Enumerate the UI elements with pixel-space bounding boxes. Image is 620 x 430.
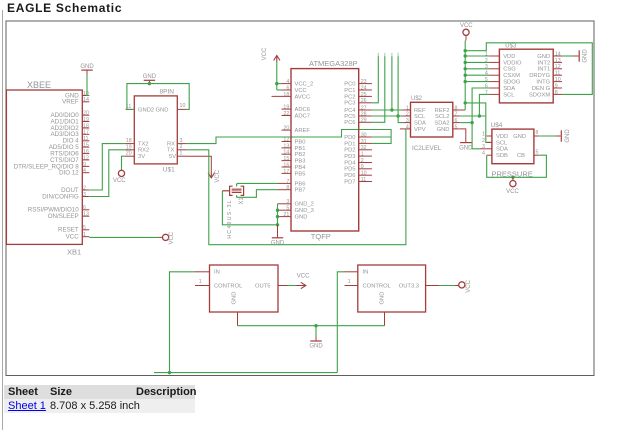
svg-text:DRDYG: DRDYG (529, 73, 550, 79)
svg-text:GND_3: GND_3 (295, 208, 314, 214)
svg-text:17: 17 (283, 169, 289, 175)
ground right of U$3 (578, 50, 580, 61)
svg-text:4: 4 (286, 79, 289, 85)
svg-text:DIN/CONFIG: DIN/CONFIG (42, 193, 79, 200)
junction PC5 net (396, 114, 399, 117)
IC1 pin IN (195, 271, 210, 273)
svg-text:U$4: U$4 (491, 122, 503, 129)
svg-text:VDD: VDD (503, 54, 515, 60)
junction CB loop (511, 176, 514, 179)
svg-text:RX: RX (167, 142, 175, 148)
svg-text:2: 2 (482, 138, 485, 144)
IC2 pin OUT3.3 (426, 285, 439, 287)
svg-text:VPV: VPV (414, 127, 426, 133)
svg-text:29: 29 (361, 118, 367, 124)
XB1 pin 3 DIN/CONFIG (82, 196, 89, 198)
svg-text:8: 8 (286, 185, 289, 191)
svg-text:SDOG: SDOG (503, 80, 521, 86)
svg-text:PC6: PC6 (344, 120, 355, 126)
svg-text:PB7: PB7 (295, 188, 306, 194)
wire regulators ground rail (238, 325, 317, 327)
junction VCC chain (464, 54, 467, 57)
svg-text:CSXM: CSXM (503, 73, 520, 79)
U$3 pin 11 DRDYG (553, 74, 562, 76)
ATMEGA328P pin 25 PC2 (359, 95, 372, 97)
wire VCC chain to U$4 SCL feeder (465, 103, 492, 142)
ATMEGA328P pin 24 PC1 (359, 89, 372, 91)
IC2 pin IN (345, 271, 358, 273)
svg-text:2: 2 (361, 158, 364, 164)
ground below U$2 (460, 142, 471, 144)
wire ground to U$1 pin 10 (149, 84, 189, 110)
wire GND chain stub down (277, 225, 279, 238)
junction PC4 net (390, 108, 393, 111)
VCC supply below U$1 3V (118, 170, 124, 176)
svg-text:9: 9 (361, 164, 364, 170)
wire U$1 5V to VCC arrow (187, 156, 212, 171)
svg-text:VCC: VCC (262, 47, 268, 60)
wire IC2 IN from bottom rail (337, 272, 344, 373)
regulator IC2 body (358, 265, 426, 312)
svg-text:PD2: PD2 (344, 148, 355, 154)
svg-text:VCC: VCC (466, 279, 472, 292)
U$3 pin 8 SDOXM (553, 93, 562, 95)
U$1 pin 1 5V (177, 155, 186, 157)
U$2 pin 5 GND (453, 128, 460, 130)
svg-text:TQFP: TQFP (311, 232, 331, 241)
svg-text:8: 8 (536, 130, 539, 136)
svg-text:PD3: PD3 (344, 154, 355, 160)
ATMEGA328P pin 27 PC4 (359, 109, 372, 111)
junction at U$1 ground (148, 82, 151, 85)
svg-text:PB5: PB5 (295, 171, 306, 177)
svg-text:HC49US-3L: HC49US-3L (227, 199, 233, 239)
svg-text:21: 21 (283, 212, 289, 218)
svg-text:3: 3 (406, 118, 409, 124)
svg-text:PD0: PD0 (344, 135, 355, 141)
svg-text:GND_2: GND_2 (295, 202, 314, 208)
ATMEGA328P pin 10 PD6 (359, 174, 372, 176)
svg-text:PD7: PD7 (344, 179, 355, 185)
svg-text:9: 9 (555, 83, 558, 89)
U$2 pin 2 SCL (402, 115, 411, 117)
svg-text:PD4: PD4 (344, 160, 356, 166)
wire U$1 3V to VCC supply (122, 156, 126, 170)
wire U$4 GND pin to ground (539, 135, 555, 137)
XB1 pin 2 DOUT (82, 189, 89, 191)
wire XB1 VCC pin to VCC supply (89, 236, 158, 238)
svg-text:5: 5 (536, 149, 539, 155)
wire VCC supply stub (465, 35, 467, 40)
svg-text:13: 13 (555, 58, 561, 64)
svg-text:5: 5 (485, 77, 488, 83)
svg-text:PD6: PD6 (344, 173, 355, 179)
ground below ATMEGA (272, 237, 283, 239)
ATMEGA328P pin 12 PB0 (282, 141, 292, 143)
svg-text:ON/SLEEP: ON/SLEEP (48, 213, 79, 220)
ATMEGA328P pin 1 PD3 (359, 155, 372, 157)
svg-text:ADC6: ADC6 (295, 107, 310, 113)
svg-text:PB6: PB6 (295, 181, 306, 187)
U$3 pin 1 VDD (490, 55, 500, 57)
wire PC4 net up (391, 56, 393, 110)
svg-text:DEN G: DEN G (532, 86, 551, 92)
svg-text:6: 6 (83, 205, 86, 211)
svg-text:18: 18 (283, 92, 289, 98)
svg-text:GND2: GND2 (138, 107, 154, 113)
svg-text:VCC: VCC (215, 169, 221, 182)
svg-text:8PIN: 8PIN (160, 89, 175, 96)
svg-text:14: 14 (555, 51, 561, 57)
junction bottom rail at IC1 IN (168, 371, 171, 374)
svg-text:GND: GND (156, 107, 169, 113)
XB1 pin 10 GND (82, 95, 89, 97)
svg-text:XBEE: XBEE (27, 80, 51, 90)
ATMEGA328P pin 4 VCC_2 (282, 83, 292, 85)
wire ATMEGA PD0 stub join (372, 136, 391, 138)
U$4 pin 2 SCL (487, 141, 492, 143)
svg-text:17: 17 (83, 130, 89, 136)
wire U$1 TX to U$2 VPV (187, 129, 406, 245)
svg-text:PC5: PC5 (344, 114, 355, 120)
svg-text:1: 1 (180, 150, 183, 156)
svg-text:CB: CB (517, 153, 525, 159)
XB1 pin 20 AD0/DIO0 (82, 114, 89, 116)
U$1 pin 11 GND2 (126, 108, 135, 110)
svg-text:SDA: SDA (414, 121, 426, 127)
junction VCC chain (464, 74, 467, 77)
svg-text:PC1: PC1 (344, 88, 355, 94)
svg-text:10: 10 (361, 171, 367, 177)
U$1 pin 18 TX2 (126, 143, 135, 145)
svg-text:VCC: VCC (66, 234, 80, 241)
U$2 pin 1 REF (402, 109, 411, 111)
U$3 pin 9 DEN G (553, 87, 562, 89)
ATMEGA328P pin 26 PC3 (359, 102, 372, 104)
ATMEGA328P pin 30 PD0 (359, 136, 372, 138)
junction GND chain corner (276, 223, 279, 226)
svg-text:SCL: SCL (503, 92, 515, 98)
svg-text:13: 13 (83, 212, 89, 218)
U$3 pin 6 SDA (490, 87, 500, 89)
svg-text:15: 15 (283, 156, 289, 162)
XB1 pin 6 RSSI/PWM/DIO10 (82, 209, 89, 211)
schematic canvas frame (6, 21, 594, 376)
VCC supply arrow 5V rail (295, 282, 306, 288)
XB1 pin 5 RESET (82, 229, 89, 231)
wire PC5 net up (397, 56, 399, 116)
svg-text:CONTROL: CONTROL (363, 283, 392, 289)
junction VCC chain (464, 61, 467, 64)
svg-text:VDD: VDD (496, 134, 508, 140)
ATMEGA328P pin 29 PC6 (359, 121, 372, 123)
svg-text:VCC: VCC (460, 23, 473, 29)
wire PB6 to crystal top (237, 182, 278, 184)
svg-text:20: 20 (126, 151, 132, 157)
svg-text:X1: X1 (239, 197, 245, 205)
IC1 pin 1 CONTROL (195, 285, 210, 287)
U$3 pin 13 INT2 (553, 61, 562, 63)
XB1 pin 18 AD2/DIO2 (82, 127, 89, 129)
svg-text:OUT3.3: OUT3.3 (399, 283, 419, 289)
IC1 pin OUT5 (278, 285, 288, 287)
wire XB1 GND pin to ground (86, 70, 88, 74)
junction GND_3 (276, 209, 279, 212)
ATMEGA328P pin 28 PC5 (359, 115, 372, 117)
ATMEGA328P pin 6 VCC (282, 89, 292, 91)
wire ground to U$1 pin 11 (127, 84, 149, 110)
svg-text:VCC: VCC (169, 231, 175, 244)
junction VCC chain (464, 80, 467, 83)
U$2 pin 6 SDA2 (453, 122, 460, 124)
svg-text:28: 28 (361, 111, 367, 117)
svg-text:12: 12 (283, 137, 289, 143)
U$4 pin 4 SDB (487, 154, 492, 156)
svg-text:PD1: PD1 (344, 141, 355, 147)
XB1 pin 11 DIO 4 (82, 140, 89, 142)
svg-text:SCL2: SCL2 (435, 114, 450, 120)
junction at ATMEGA VCC_2 (275, 82, 278, 85)
XB1 pin 19 AD1/DIO1 (82, 121, 89, 123)
svg-text:22: 22 (283, 111, 289, 117)
U$2 pin 4 VPV (400, 128, 411, 130)
U$3 pin 12 INT1 (553, 68, 562, 70)
svg-text:INTG: INTG (536, 80, 550, 86)
VCC supply arrow above ATMEGA VCC pins (274, 56, 280, 63)
svg-text:PB3: PB3 (295, 159, 306, 165)
svg-text:19: 19 (283, 105, 289, 111)
VCC supply 3.3V rail (459, 282, 465, 288)
XB1 pin 4 DIO 12 (82, 172, 89, 174)
wire U$3 SDA down (472, 88, 489, 149)
svg-text:1: 1 (485, 51, 488, 57)
U$1 pin 20 3V (126, 155, 135, 157)
svg-text:AVCC: AVCC (295, 94, 311, 100)
wire VCC jog to right edge and U$3 SDOXM (465, 43, 592, 95)
svg-text:GND: GND (583, 49, 589, 63)
svg-text:SDB: SDB (496, 153, 508, 159)
svg-text:18: 18 (83, 123, 89, 129)
XB1 pin 16 RTS/DIO6 (82, 153, 89, 155)
wire VCC_2 stub join (277, 83, 282, 85)
svg-text:1: 1 (83, 232, 86, 238)
ATMEGA328P pin 32 PD2 (359, 149, 372, 151)
svg-text:AREF: AREF (295, 128, 311, 134)
wire VCC stub join (277, 89, 282, 91)
U$3 pin 5 SDOG (490, 81, 500, 83)
VCC supply top right (463, 29, 469, 35)
svg-text:PB2: PB2 (295, 152, 306, 158)
svg-text:2: 2 (83, 185, 86, 191)
svg-text:24: 24 (361, 85, 367, 91)
ATMEGA328P pin 5 GND_3 (278, 209, 292, 211)
wire U$1 ground stub (148, 80, 150, 83)
svg-text:OUT5: OUT5 (255, 283, 270, 289)
svg-text:20: 20 (83, 111, 89, 117)
IC2 pin 1 CONTROL (345, 285, 358, 287)
U$1 pin 3 RX (177, 143, 186, 145)
svg-text:VCC: VCC (506, 189, 519, 195)
svg-text:TX2: TX2 (138, 142, 149, 148)
ATMEGA328P pin 21 GND (278, 216, 292, 218)
svg-text:15: 15 (83, 143, 89, 149)
wire U$2 SCL2 join (460, 115, 486, 117)
wire U$3 SCL down (479, 94, 489, 116)
ATMEGA328P pin 13 PB1 (282, 147, 292, 149)
svg-text:7: 7 (455, 111, 458, 117)
wire net fade tips (377, 53, 379, 57)
svg-text:4: 4 (485, 71, 488, 77)
svg-text:12: 12 (83, 155, 89, 161)
svg-text:SDA2: SDA2 (434, 121, 449, 127)
svg-text:U$2: U$2 (411, 96, 423, 102)
U$2 pin 3 SDA (404, 122, 411, 124)
svg-text:GND: GND (437, 127, 450, 133)
svg-text:2: 2 (180, 144, 183, 150)
U$2 pin 8 REF2 (453, 109, 465, 111)
ATMEGA328P pin 17 PB5 (282, 172, 292, 174)
svg-text:TX: TX (167, 148, 175, 154)
XB1 pin 13 ON/SLEEP (82, 215, 89, 217)
svg-text:GND: GND (459, 145, 473, 151)
svg-text:4: 4 (482, 151, 485, 157)
svg-text:32: 32 (361, 145, 367, 151)
wire IC1 OUT5 to VCC arrow (288, 285, 296, 287)
ground for XB1 pin 10 (81, 69, 92, 71)
svg-text:16: 16 (83, 149, 89, 155)
svg-text:5: 5 (455, 124, 458, 130)
IMU U$3 body (499, 49, 553, 103)
svg-text:6: 6 (286, 85, 289, 91)
IC2 pin GND down (384, 312, 386, 326)
svg-text:18: 18 (126, 138, 132, 144)
U$3 pin 3 CSG (490, 68, 500, 70)
svg-text:VDDIO: VDDIO (503, 60, 522, 66)
svg-text:IN: IN (363, 270, 369, 276)
junction SCL net (478, 114, 481, 117)
svg-text:20: 20 (283, 126, 289, 132)
svg-text:PC2: PC2 (344, 94, 355, 100)
svg-text:10: 10 (180, 103, 186, 109)
U$3 pin 7 SCL (490, 93, 500, 95)
svg-text:PB0: PB0 (295, 139, 306, 145)
svg-text:3: 3 (485, 64, 488, 70)
svg-text:3: 3 (180, 138, 183, 144)
svg-text:VCC_2: VCC_2 (295, 82, 314, 88)
svg-text:16: 16 (283, 162, 289, 168)
svg-text:VCC: VCC (295, 88, 307, 94)
svg-text:2: 2 (406, 111, 409, 117)
wire XB1 DOUT to U$1 TX2 (89, 144, 125, 190)
svg-text:30: 30 (361, 132, 367, 138)
svg-text:3: 3 (286, 199, 289, 205)
junction VCC chain (464, 49, 467, 52)
svg-text:DIO 12: DIO 12 (59, 170, 79, 177)
svg-text:GND: GND (80, 64, 94, 70)
microcontroller ATMEGA328P body (291, 69, 359, 231)
svg-text:6: 6 (455, 118, 458, 124)
svg-text:SDA: SDA (503, 86, 515, 92)
junction GND (276, 215, 279, 218)
svg-text:GND: GND (565, 129, 571, 143)
svg-text:ATMEGA328P: ATMEGA328P (309, 59, 358, 68)
U$4 pin 3 SDA (487, 148, 492, 150)
wire U$1 RX to ATMEGA PD1 net (187, 130, 392, 144)
U$3 pin 4 CSXM (490, 74, 500, 76)
wire VCC chain to U$3 pins (465, 55, 489, 57)
svg-text:4: 4 (83, 168, 86, 174)
U$3 pin 10 INTG (553, 81, 562, 83)
junction VCC chain (464, 101, 467, 104)
wire U$3 SDA ext to U$4 SDA (480, 148, 487, 150)
svg-text:10: 10 (555, 77, 561, 83)
svg-text:1: 1 (348, 279, 351, 285)
ATMEGA328P pin 2 PD4 (359, 162, 372, 164)
svg-text:IN: IN (214, 270, 220, 276)
XB1 pin 17 AD3/DIO3 (82, 133, 89, 135)
svg-text:GND: GND (309, 344, 323, 350)
XB1 pin 12 CTS/DIO7 (82, 159, 89, 161)
svg-text:11: 11 (361, 177, 367, 183)
XBEE module XB1 body (6, 90, 82, 244)
svg-text:GND: GND (232, 292, 238, 305)
svg-text:VCC: VCC (297, 274, 310, 280)
svg-text:GND: GND (143, 74, 157, 80)
wire PC4 net to U$2 REF (372, 109, 402, 111)
svg-text:GND: GND (380, 292, 386, 305)
ATMEGA328P pin 8 PB7 (278, 189, 292, 191)
wire ground rail down (315, 326, 317, 337)
wire IC2 OUT3.3 to VCC supply (439, 285, 459, 287)
ATMEGA328P pin 31 PD1 (359, 142, 372, 144)
wire PB7 to crystal bottom (237, 190, 278, 198)
ATMEGA328P pin 11 PD7 (359, 181, 372, 183)
svg-text:14: 14 (83, 97, 89, 103)
U$3 pin 2 VDDIO (490, 61, 500, 63)
ATMEGA328P pin 9 PD5 (359, 168, 372, 170)
wire IC1 IN from bottom rail (170, 272, 196, 373)
svg-text:U$3: U$3 (505, 43, 517, 49)
wire U$2 SDA2 join (460, 122, 472, 124)
svg-text:5V: 5V (169, 154, 176, 160)
radio module U$1 body (134, 96, 177, 164)
XB1 pin 15 AD5/DIO 5 (82, 146, 89, 148)
U$4 pin 8 GND (534, 135, 539, 137)
U$2 pin 7 SCL2 (453, 115, 460, 117)
svg-text:PC3: PC3 (344, 101, 355, 107)
pressure sensor U$4 body (492, 129, 534, 164)
wire U$4 CB loop to SDB (487, 155, 547, 177)
svg-text:CSG: CSG (503, 67, 516, 73)
svg-text:5: 5 (83, 225, 86, 231)
svg-text:PB1: PB1 (295, 146, 306, 152)
ATMEGA328P pin 3 GND_2 (278, 203, 292, 205)
svg-text:14: 14 (283, 150, 289, 156)
VCC supply below U$4 (510, 181, 516, 187)
svg-text:SCL: SCL (496, 140, 508, 146)
svg-text:PC0: PC0 (344, 82, 355, 88)
svg-text:7: 7 (286, 179, 289, 185)
svg-text:12: 12 (555, 64, 561, 70)
svg-text:11: 11 (83, 136, 89, 142)
svg-text:9: 9 (83, 162, 86, 168)
svg-text:23: 23 (361, 79, 367, 85)
ATMEGA328P pin 14 PB2 (282, 153, 292, 155)
wire GND chain to crystal (222, 191, 277, 225)
wire PC5 net to U$2 SCL (372, 115, 402, 117)
ATMEGA328P pin 15 PB3 (282, 160, 292, 162)
svg-text:8: 8 (555, 90, 558, 96)
